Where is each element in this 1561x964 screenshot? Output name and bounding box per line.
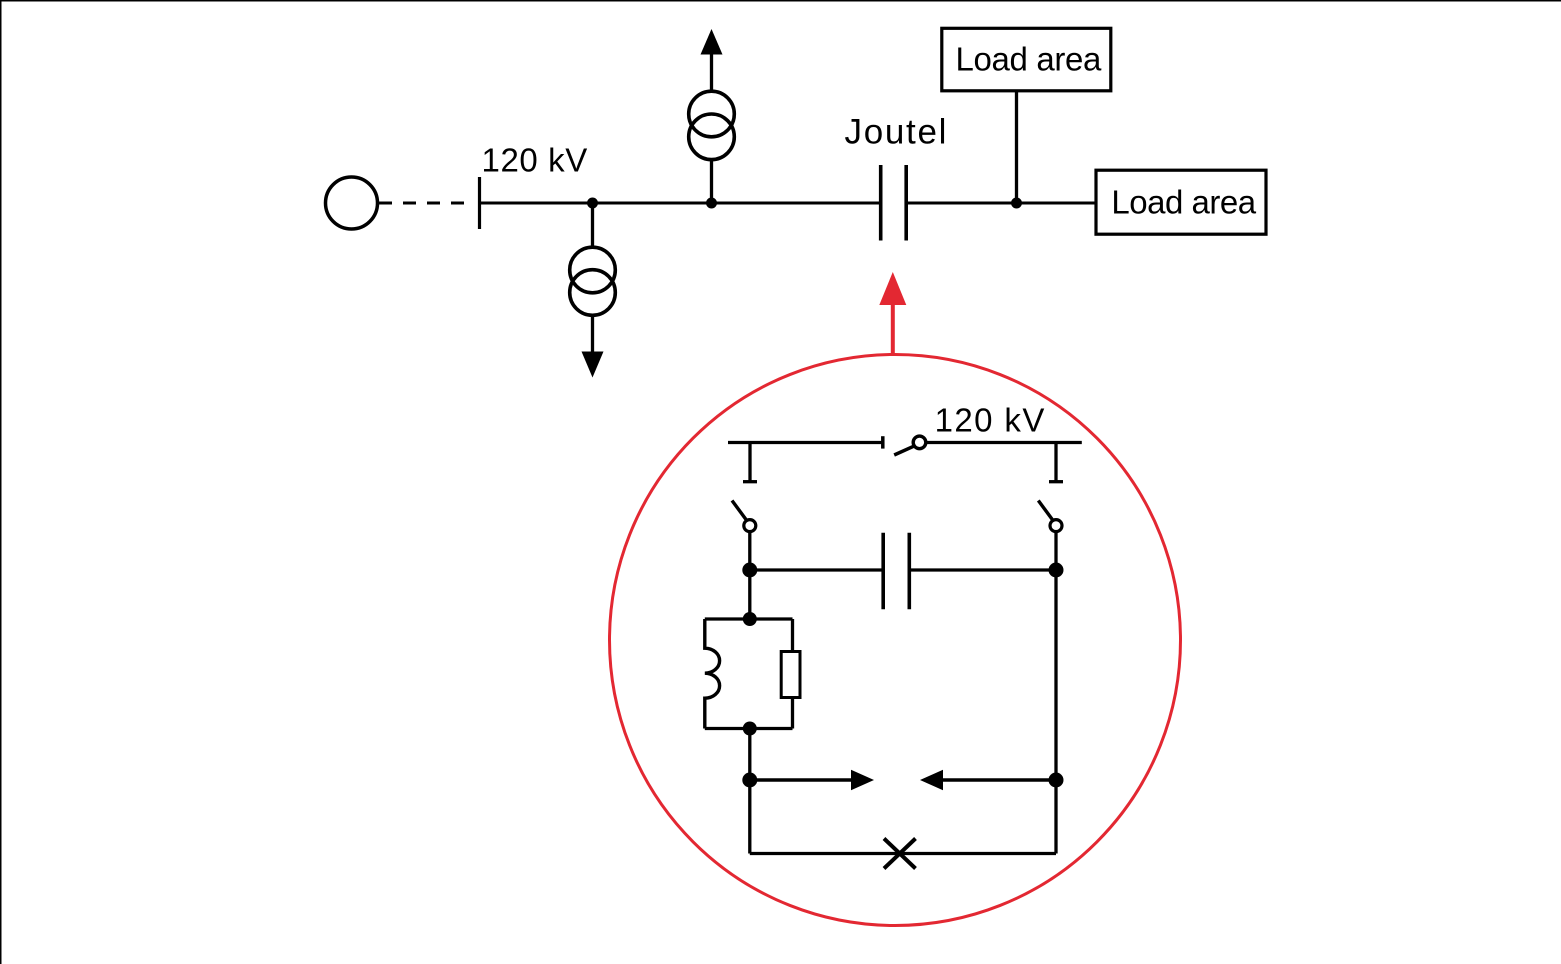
wire node A to series capacitor <box>750 568 883 571</box>
switch S1 blade (left, open) <box>732 501 746 520</box>
resistor R (right branch of damping loop) <box>791 619 794 652</box>
switch S1 hinge circle <box>744 520 756 532</box>
wire S1 to node A <box>748 532 751 566</box>
wire node C down left side <box>748 780 751 854</box>
transformer T1 (two-winding, to load below) <box>570 247 616 315</box>
wire below transformer T1 <box>591 315 594 352</box>
wire lower transformer feeder <box>591 203 594 248</box>
wire loop bottom to node C <box>748 729 751 781</box>
page top border <box>0 0 1561 2</box>
wire bus right of capacitor <box>906 202 1096 205</box>
node A (left) <box>742 563 757 578</box>
disconnector blade <box>894 446 914 455</box>
node junction to upper load area <box>1011 198 1022 209</box>
node D (right lower) <box>1049 773 1064 788</box>
node B (right) <box>1049 563 1064 578</box>
node loop top <box>743 612 757 626</box>
inductor L (left branch of damping loop) <box>705 619 720 729</box>
wire loop top <box>705 617 793 620</box>
arrow current flow left <box>943 778 1056 781</box>
arrow current flow right <box>750 778 852 781</box>
wire dashed tie to 120 kV bus <box>379 202 474 205</box>
wire detail top bus left segment <box>728 441 883 444</box>
wire bottom return <box>750 852 1056 855</box>
switch S2 blade (right, open) <box>1038 501 1052 520</box>
terminal T left (bus drop with end bar) <box>748 443 751 482</box>
svg-text:120 kV: 120 kV <box>482 142 588 179</box>
wire detail top bus right segment <box>927 441 1082 444</box>
disconnector hinge circle <box>913 436 926 449</box>
svg-text:Joutel: Joutel <box>845 113 949 152</box>
wire above transformer T2 <box>710 54 713 92</box>
generator G source circle <box>326 177 378 229</box>
terminal T right (bus drop with end bar) <box>1054 443 1057 482</box>
wire S2 to node B <box>1054 532 1057 566</box>
capacitor C series (Joutel) right plate <box>904 165 908 241</box>
wire node A down to damping branch <box>748 570 751 619</box>
arrow load direction down <box>582 352 604 378</box>
wire loop bottom <box>705 727 793 730</box>
capacitor C1 (series, detail) left plate <box>881 533 885 610</box>
load block Load area (right) <box>1096 170 1266 234</box>
node junction on bus (upper transformer tap) <box>706 198 717 209</box>
svg-text:Load area: Load area <box>956 40 1102 77</box>
switch S2 hinge circle <box>1050 520 1062 532</box>
load block Load area (upper) <box>942 28 1111 91</box>
capacitor C series (Joutel) left plate <box>879 165 883 241</box>
red detail circle (zoom bubble) <box>610 355 1181 926</box>
node bus terminal tick <box>478 177 481 229</box>
node junction on bus (lower transformer tap) <box>587 198 598 209</box>
disconnector fixed contact tick <box>881 436 885 448</box>
transformer T2 (two-winding, to load above) <box>689 91 735 159</box>
wire 120 kV bus <box>480 202 881 205</box>
spark gap X <box>884 839 916 869</box>
node C (left lower) <box>742 773 757 788</box>
capacitor C1 (series, detail) right plate <box>907 533 911 610</box>
svg-text:Load area: Load area <box>1111 183 1256 220</box>
arrow load direction up <box>701 29 723 55</box>
svg-text:120 kV: 120 kV <box>935 402 1046 439</box>
wire capacitor to node B <box>909 568 1056 571</box>
wire upper transformer feeder <box>710 160 713 204</box>
wire to upper load area box <box>1015 91 1018 203</box>
page left border <box>0 0 2 964</box>
wire node B down right side <box>1054 570 1057 854</box>
arrow red callout pointer <box>891 303 895 355</box>
node loop bottom <box>743 722 757 736</box>
